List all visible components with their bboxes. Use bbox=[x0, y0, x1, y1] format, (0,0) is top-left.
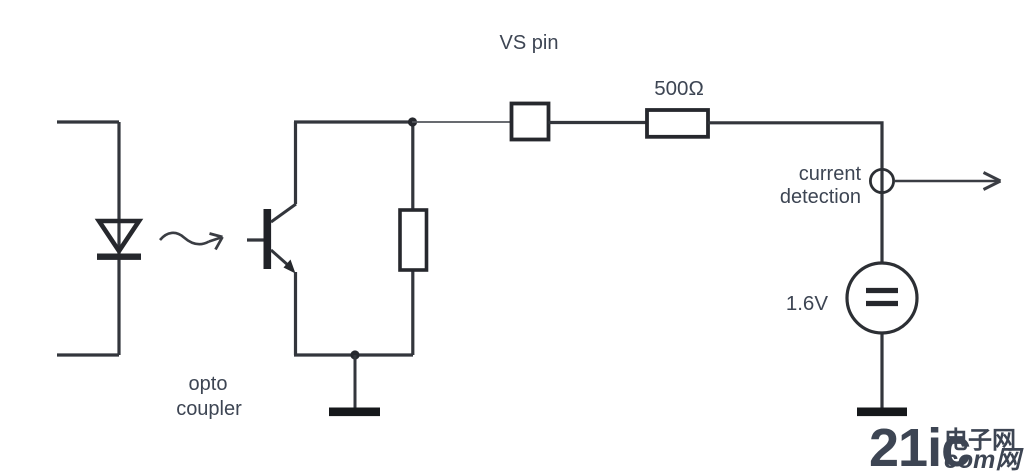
wire: thin node to VS pin box bbox=[412, 121, 511, 123]
svg-text:VS pin: VS pin bbox=[500, 32, 559, 54]
wire: left branch bottom stub bbox=[57, 353, 119, 356]
svg-text:500Ω: 500Ω bbox=[654, 77, 704, 100]
resistor 500ohm bbox=[647, 110, 708, 137]
watermark 21ic bbox=[869, 418, 1024, 476]
voltage source bars bbox=[866, 288, 898, 293]
ground (opto side) bbox=[329, 408, 380, 417]
wire: left branch vertical through diode bbox=[117, 122, 120, 355]
svg-text:coupler: coupler bbox=[176, 398, 242, 420]
svg-text:com网: com网 bbox=[944, 446, 1024, 474]
current detection probe circle bbox=[870, 169, 893, 192]
wire: top horizontal collector to node bbox=[294, 120, 412, 123]
light coupling wavy arrow bbox=[160, 233, 223, 250]
node A: junction dot top bbox=[408, 117, 417, 126]
resistor R1 (vertical, parallel to transistor) bbox=[400, 210, 427, 270]
wire: emitter vertical bbox=[294, 272, 297, 355]
wire: left branch top stub bbox=[57, 120, 119, 123]
svg-text:opto: opto bbox=[189, 373, 228, 395]
transistor Q1 (photo-transistor) base bar bbox=[264, 209, 272, 269]
wire: collector vertical bbox=[294, 122, 297, 204]
node B: junction dot bottom bbox=[350, 350, 359, 359]
svg-text:1.6V: 1.6V bbox=[786, 292, 828, 315]
wire: resistor branch vertical bbox=[411, 122, 414, 355]
voltage source V1 1.6V bbox=[847, 263, 917, 333]
transistor collector diagonal bbox=[271, 204, 296, 222]
transistor base lead bbox=[247, 238, 264, 241]
svg-text:detection: detection bbox=[780, 186, 861, 208]
VS pin box (pad) bbox=[512, 104, 549, 140]
wire: bottom horizontal emitter to resistor bbox=[294, 353, 413, 356]
diode D1 (opto-coupler LED) bbox=[97, 221, 141, 260]
svg-text:current: current bbox=[799, 163, 862, 185]
wire: VS box to resistor bbox=[549, 121, 648, 124]
transistor emitter diagonal bbox=[271, 250, 289, 266]
arrow: current detection output bbox=[894, 173, 1001, 190]
wire: ground stub bottom left bbox=[354, 355, 357, 408]
ground (voltage source side) bbox=[857, 408, 907, 417]
wire: resistor to right corner and down to ground bbox=[708, 123, 882, 409]
transistor emitter arrowhead bbox=[284, 260, 296, 274]
